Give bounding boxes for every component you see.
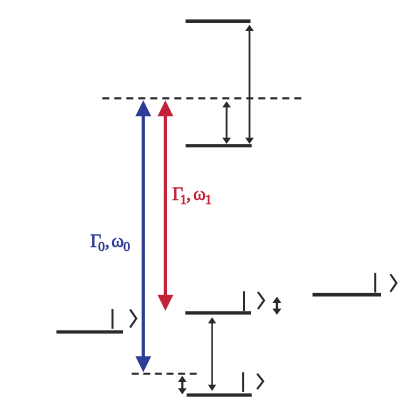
dark double arrow: full splitting of upper levels xyxy=(245,25,254,144)
red double arrow transition Γ1,ω1 xyxy=(158,100,174,311)
dark double arrow: dashed level to lower bracket line xyxy=(222,101,231,144)
double arrow between middle and bottom levels xyxy=(208,317,216,391)
middle level xyxy=(185,311,251,314)
ket on right level xyxy=(375,273,396,293)
upper excited level (top line of bracket) xyxy=(186,19,251,23)
small double arrow between dashed line and bottom level xyxy=(178,376,187,395)
blue double arrow transition Γ0,ω0 xyxy=(135,100,151,372)
left ground level xyxy=(56,330,123,333)
bottom dashed line xyxy=(132,373,198,375)
bottom level xyxy=(187,393,252,396)
ket on bottom level xyxy=(243,372,263,392)
svg-text:Γ1,ω1: Γ1,ω1 xyxy=(172,184,212,207)
svg-text:Γ0,ω0: Γ0,ω0 xyxy=(90,231,130,254)
lower line of upper bracket xyxy=(186,144,252,147)
ket on middle level xyxy=(244,291,264,311)
ket on left level xyxy=(113,309,137,329)
right level xyxy=(313,293,382,297)
tiny double arrow between right and middle levels xyxy=(272,297,281,315)
dashed virtual level (upper) xyxy=(102,97,303,99)
